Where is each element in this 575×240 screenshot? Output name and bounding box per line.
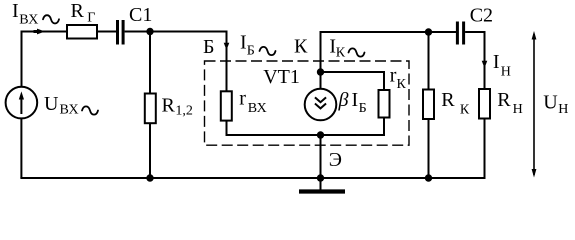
- resistor R_1,2 body: [145, 94, 156, 124]
- label I_N: [493, 51, 511, 80]
- capacitor C1 plates: [116, 20, 125, 45]
- svg-text:1,2: 1,2: [175, 104, 193, 119]
- svg-text:ВХ: ВХ: [248, 101, 267, 116]
- arrowhead I_B down on node B wire: [224, 43, 230, 50]
- svg-text:U: U: [44, 93, 59, 115]
- node dot bottom R_1,2: [146, 174, 153, 181]
- wire C2 right corner down through R_N: [465, 32, 484, 89]
- label I_BX~: [12, 0, 59, 28]
- dashed box VT1 transistor model: [205, 61, 410, 145]
- wire C1 to node B corner, down to r_BX: [125, 32, 227, 92]
- svg-text:Э: Э: [329, 149, 342, 171]
- svg-text:r: r: [239, 87, 246, 109]
- svg-text:C1: C1: [129, 4, 152, 26]
- U_N double arrow: [532, 31, 537, 178]
- resistor r_K body: [379, 90, 390, 118]
- svg-text:Б: Б: [247, 44, 255, 59]
- svg-text:К: К: [460, 103, 470, 118]
- wire top-left segment with corner: [22, 32, 68, 88]
- label U_N: [543, 92, 568, 117]
- label R_G: [71, 0, 96, 26]
- svg-text:Б: Б: [359, 101, 367, 116]
- label r_K: [390, 65, 407, 92]
- node dot after C1: [146, 28, 153, 35]
- svg-text:C2: C2: [470, 5, 493, 27]
- svg-text:I: I: [352, 89, 359, 111]
- svg-text:К: К: [397, 77, 407, 92]
- label R_K: [441, 89, 470, 118]
- source U_BX circle: [6, 87, 38, 119]
- label I_K~: [329, 35, 364, 60]
- svg-text:ВХ: ВХ: [60, 103, 79, 118]
- svg-text:Б: Б: [203, 36, 214, 58]
- wire R_1,2 to bottom rail: [149, 123, 151, 178]
- wire node down to R_K: [428, 32, 430, 90]
- ground symbol: [299, 178, 345, 192]
- chevrons inside dependent source: [316, 98, 326, 108]
- svg-text:R: R: [71, 0, 85, 22]
- resistor R_K body: [423, 90, 434, 120]
- label beta I_B: [338, 89, 367, 116]
- svg-text:ВХ: ВХ: [19, 13, 38, 28]
- svg-text:I: I: [240, 31, 247, 53]
- source U_BX arrow up: [19, 91, 24, 114]
- svg-text:β: β: [338, 89, 349, 111]
- label R_N: [497, 89, 522, 117]
- wire internal rail down to bottom rail: [320, 135, 322, 178]
- wire R_N bottom to bottom rail: [484, 119, 486, 179]
- wire R_K bottom to bottom rail: [428, 119, 430, 178]
- svg-text:Н: Н: [513, 102, 523, 117]
- wire K dot to r_K top: [321, 72, 385, 90]
- svg-text:R: R: [497, 89, 511, 111]
- label I_B~: [240, 31, 276, 58]
- node dot K branch: [317, 68, 324, 75]
- label r_BX: [239, 87, 267, 116]
- arrowhead I_N down: [482, 61, 488, 68]
- svg-text:VT1: VT1: [263, 66, 300, 88]
- node dot bottom R_K: [425, 174, 432, 181]
- svg-text:Н: Н: [501, 65, 511, 80]
- svg-text:К: К: [294, 35, 308, 57]
- wire node K: circle top up, corner right to C2: [321, 32, 457, 89]
- svg-text:Н: Н: [558, 102, 568, 117]
- resistor R_G body: [67, 25, 97, 39]
- resistor R_N body: [479, 89, 490, 119]
- svg-text:R: R: [441, 89, 455, 111]
- dependent source beta*I_B circle: [305, 89, 337, 121]
- node dot ground junction: [317, 174, 324, 181]
- bottom rail wire: [20, 177, 485, 179]
- arrowhead I_BX on top wire: [34, 29, 46, 35]
- label R_1,2: [162, 95, 193, 119]
- node dot internal rail: [317, 131, 324, 138]
- wire node C1 down to R_1,2: [149, 32, 151, 94]
- resistor r_BX body: [221, 91, 232, 120]
- svg-text:U: U: [543, 92, 558, 114]
- capacitor C2 plates: [456, 22, 465, 45]
- svg-text:R: R: [162, 95, 176, 117]
- label U_BX~: [44, 93, 98, 118]
- svg-text:Г: Г: [87, 11, 95, 26]
- wire r_BX bottom to internal rail: [227, 118, 385, 136]
- svg-text:I: I: [493, 51, 500, 73]
- svg-text:I: I: [12, 0, 19, 22]
- node dot before C2: [425, 28, 432, 35]
- wire source bottom to bottom rail: [20, 118, 22, 178]
- wire R_G to C1: [97, 31, 116, 33]
- svg-text:К: К: [336, 46, 346, 61]
